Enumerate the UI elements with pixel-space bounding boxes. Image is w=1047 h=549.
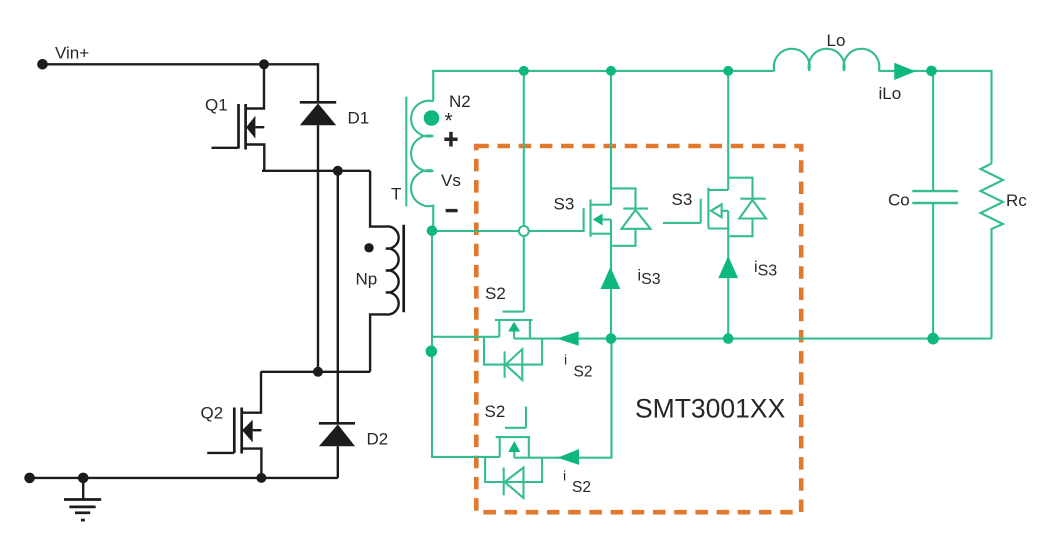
- svg-text:Vin+: Vin+: [55, 44, 89, 63]
- transistor Q1 body arrow: [246, 116, 255, 139]
- wire S2a source vertical: [529, 320, 531, 339]
- winding Np primary: [370, 171, 399, 372]
- winding N2 secondary: [411, 101, 433, 231]
- crossover circle Vs line: [519, 226, 529, 236]
- capacitor Co top lead: [932, 71, 934, 191]
- transistor S3b body arrow outline: [711, 204, 722, 217]
- label plus Vs: [444, 132, 457, 147]
- svg-text:Lo: Lo: [827, 31, 846, 50]
- svg-text:D1: D1: [348, 109, 370, 128]
- svg-text:D2: D2: [367, 430, 389, 449]
- inductor Lo coil: [774, 49, 879, 71]
- junction dot Q1 drain rail: [259, 59, 269, 69]
- svg-text:Q2: Q2: [201, 404, 224, 423]
- orange dashed box SMT3001XX boundary: [476, 146, 801, 512]
- transistor S3a body arrow: [593, 214, 603, 226]
- wire S2b source vertical: [528, 437, 530, 458]
- svg-text:Q1: Q1: [205, 96, 228, 115]
- wire S2a diode loop: [484, 337, 542, 365]
- wire Q1 drain: [246, 64, 264, 108]
- junction dot bottom rail S3a: [606, 333, 617, 344]
- wire S3a drain vertical: [610, 71, 612, 205]
- svg-text:T: T: [391, 185, 401, 204]
- junction dot rail S3b: [723, 66, 733, 76]
- transistor S2b channel bar: [496, 436, 530, 438]
- diode S3a triangle: [622, 210, 651, 229]
- svg-text:Rc: Rc: [1006, 191, 1027, 210]
- wire S2a drain lead horizontal: [432, 336, 499, 338]
- transformer core bar primary: [402, 225, 405, 312]
- wire S2b source rail: [514, 339, 611, 458]
- junction dot rail S3a: [606, 66, 616, 76]
- wire Q1 body lead: [255, 126, 264, 128]
- wire secondary bottom rail: [514, 338, 991, 340]
- wire S2b drain vertical: [499, 437, 501, 457]
- wire S3a source vertical: [610, 220, 612, 339]
- diode D2 triangle: [319, 424, 355, 446]
- capacitor Co bottom lead: [932, 203, 934, 339]
- transformer core bar secondary: [405, 97, 407, 207]
- wire S3a diode branch bottom: [611, 229, 636, 246]
- svg-text:iLo: iLo: [879, 84, 902, 103]
- wire D2 anode: [337, 446, 339, 478]
- wire S2b arrow stem: [513, 452, 515, 458]
- svg-text:S3: S3: [554, 195, 575, 214]
- diode S2b cathode bar: [503, 468, 505, 496]
- wire Q2 gate lead: [207, 452, 234, 454]
- diode S3b triangle: [739, 200, 766, 219]
- wire D2 cathode: [337, 171, 339, 423]
- arrow iS2 upper: [557, 331, 579, 346]
- wire S3b drain lead: [708, 189, 728, 191]
- wire top rail Vin+: [43, 64, 319, 102]
- transistor S3b channel bar: [707, 188, 709, 229]
- transistor S2b gate bar: [505, 427, 526, 429]
- svg-text:S2: S2: [485, 402, 506, 421]
- wire S2b diode loop: [485, 457, 542, 482]
- junction dot node A: [333, 166, 343, 176]
- arrow iS2 lower: [558, 449, 580, 465]
- svg-text:Vs: Vs: [441, 171, 461, 190]
- wire node A horizontal: [262, 170, 370, 172]
- arrow iLo: [894, 63, 915, 80]
- svg-text:iS3: iS3: [638, 268, 661, 289]
- svg-text:Np: Np: [356, 270, 378, 289]
- wire S3a source lead: [591, 233, 612, 235]
- wire S3b diode branch top: [728, 178, 752, 199]
- transistor Q1 channel bar: [244, 104, 247, 150]
- wire S3b body lead: [722, 210, 729, 212]
- terminal dot ground left: [24, 473, 35, 484]
- capacitor Co bottom plate: [912, 202, 958, 204]
- wire S3b source vertical: [727, 211, 729, 339]
- wire Q1 gate lead: [212, 147, 239, 149]
- terminal dot Vin+: [37, 59, 48, 70]
- arrow iS3 left: [601, 267, 621, 289]
- transistor Q2 channel bar: [240, 408, 243, 454]
- wire S3a diode branch top: [611, 188, 636, 208]
- ground bar 3: [75, 511, 90, 514]
- transistor S2b gate stub: [525, 407, 527, 428]
- diode S3a cathode bar: [623, 208, 648, 210]
- wire Q2 drain: [242, 372, 261, 413]
- svg-text:N2: N2: [449, 92, 471, 111]
- transistor S3b gate bar: [700, 199, 702, 223]
- transistor S3a gate bar: [583, 208, 585, 232]
- wire Q1 source: [246, 145, 265, 171]
- svg-text:Co: Co: [888, 191, 910, 210]
- transistor S2b body arrow: [508, 441, 520, 452]
- wire ground rail: [30, 477, 338, 479]
- ground bar 2: [69, 506, 95, 509]
- svg-text:S3: S3: [672, 190, 693, 209]
- diode S3b cathode bar: [740, 198, 765, 200]
- wire S2a arrow stem: [513, 332, 515, 339]
- junction dot bottom rail Co: [927, 333, 939, 345]
- wire S3b drain vertical: [727, 71, 729, 190]
- diode S2b triangle: [505, 468, 524, 499]
- transistor Q2 body arrow: [242, 420, 253, 443]
- wire Q2 body lead: [253, 429, 262, 431]
- wire S3b source lead: [708, 227, 728, 229]
- junction dot ground: [78, 473, 89, 484]
- svg-text:S2: S2: [485, 284, 506, 303]
- wire secondary top rail right: [879, 71, 992, 164]
- diode D1 triangle: [300, 103, 336, 125]
- wire ground stub: [82, 478, 84, 500]
- wire Q2 source: [242, 449, 262, 478]
- diode S2a triangle: [506, 349, 523, 380]
- transistor S2a body arrow: [508, 322, 520, 332]
- ground bar 1: [64, 498, 101, 501]
- transistor Q2 gate bar: [233, 408, 236, 453]
- phase dot N2: [424, 110, 440, 126]
- label minus Vs: [446, 209, 458, 212]
- transistor Q1 gate bar: [237, 104, 240, 148]
- wire node B horizontal: [261, 371, 370, 373]
- wire gate line from rail to S2a: [523, 71, 525, 312]
- wire secondary left vertical: [432, 231, 500, 457]
- arrow iS3 right: [718, 256, 738, 278]
- resistor Rc zigzag: [981, 164, 1004, 339]
- wire secondary top rail left: [433, 71, 774, 101]
- wire S3b gate lead: [663, 222, 701, 224]
- transistor S3a channel bar: [589, 199, 591, 237]
- ground bar 4: [81, 519, 85, 522]
- wire D1 anode: [317, 125, 319, 372]
- transistor S2a gate bar: [503, 311, 524, 313]
- junction dot node B: [313, 367, 323, 377]
- svg-text:SMT3001XX: SMT3001XX: [635, 394, 786, 424]
- wire Vs minus gate line: [432, 230, 584, 232]
- junction dot rail gate line: [519, 66, 529, 76]
- wire S3a drain lead: [591, 204, 612, 206]
- svg-text:iS3: iS3: [754, 259, 777, 280]
- junction dot S2a drain: [426, 346, 438, 358]
- capacitor Co top plate: [912, 190, 958, 192]
- wire S3b diode branch bottom: [729, 219, 752, 237]
- junction dot Q2 source: [256, 473, 266, 483]
- wire S3a body lead: [603, 218, 611, 220]
- diode S2a cathode bar: [504, 351, 506, 378]
- phase dot Np: [364, 243, 373, 252]
- wire S2a drain vertical: [498, 320, 500, 337]
- junction dot Vs minus: [427, 226, 438, 237]
- transistor S2a channel bar: [495, 319, 533, 321]
- diode D2 cathode bar: [319, 422, 355, 425]
- junction dot rail iLo: [926, 66, 937, 77]
- diode D1 cathode bar: [300, 101, 336, 104]
- svg-text:*: *: [445, 110, 453, 133]
- junction dot bottom rail S3b: [723, 333, 734, 344]
